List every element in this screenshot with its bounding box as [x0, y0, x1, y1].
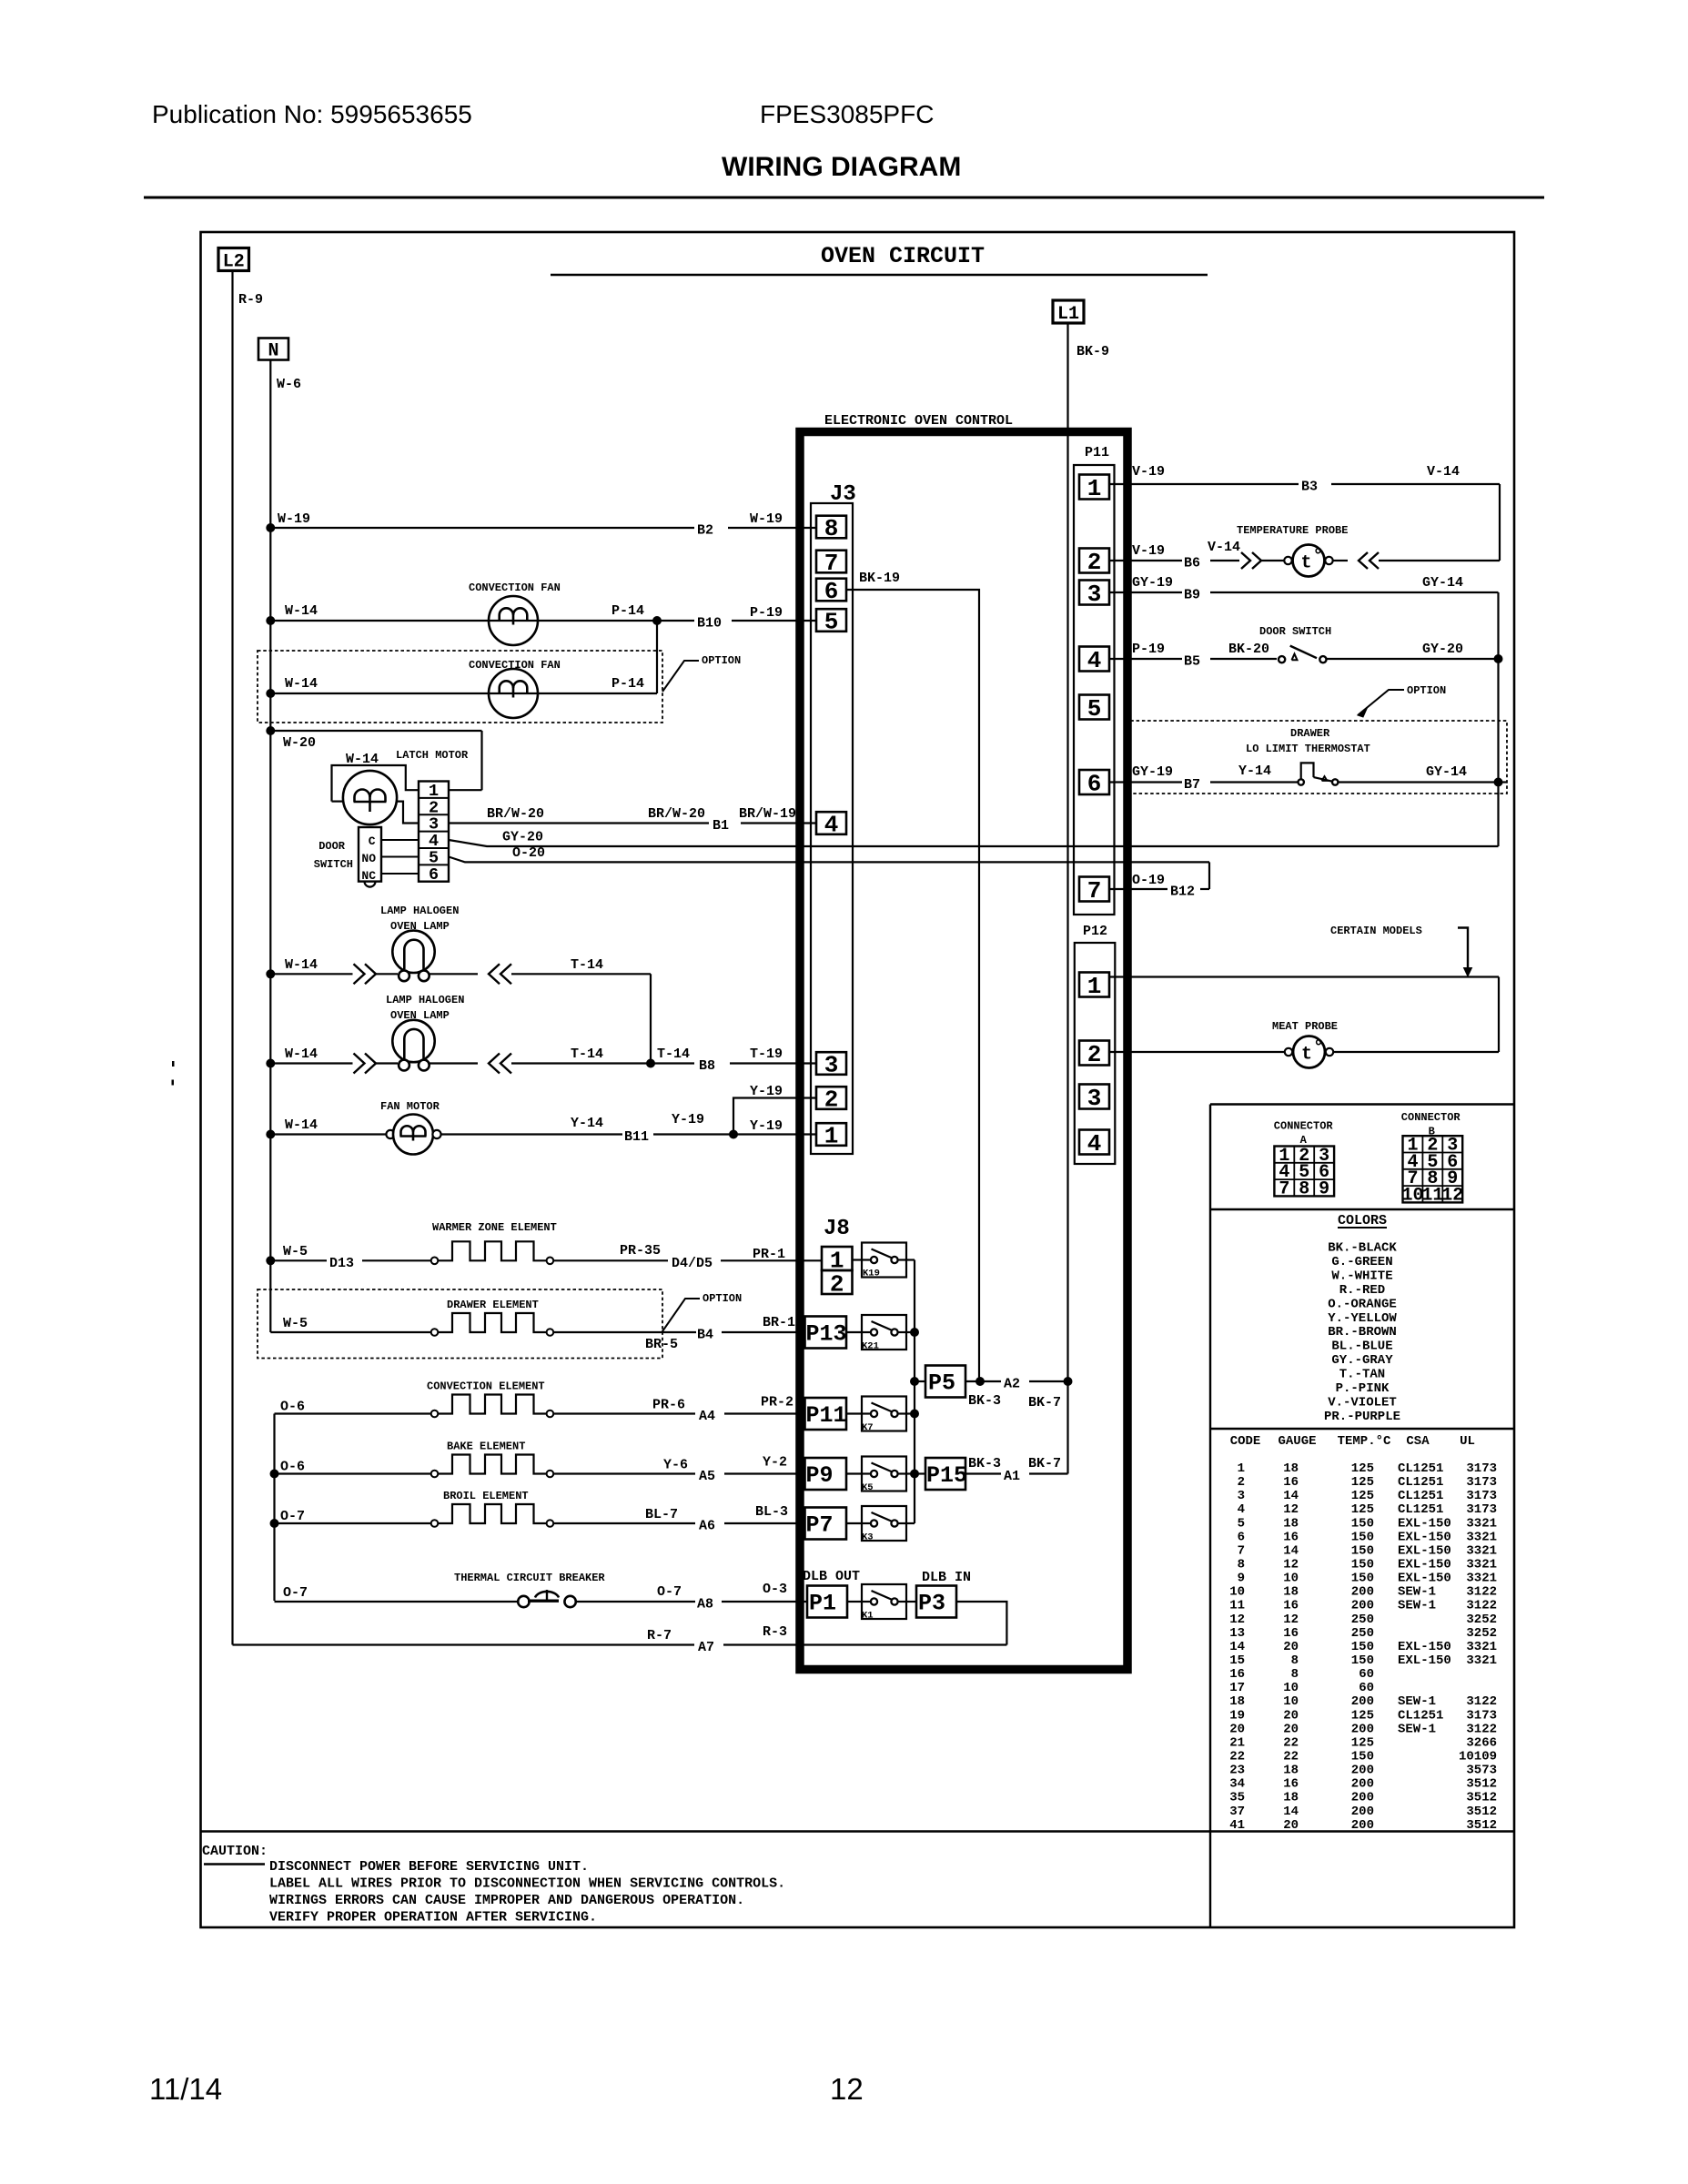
svg-text:5: 5 — [1087, 695, 1102, 723]
svg-text:MEAT PROBE: MEAT PROBE — [1272, 1020, 1338, 1033]
svg-text:WIRINGS ERRORS CAN CAUSE IMPRO: WIRINGS ERRORS CAN CAUSE IMPROPER AND DA… — [269, 1893, 744, 1908]
svg-text:K3: K3 — [862, 1532, 874, 1543]
svg-text:BK-20: BK-20 — [1228, 642, 1269, 657]
svg-text:BL-7: BL-7 — [645, 1507, 678, 1522]
svg-text:BR-1: BR-1 — [763, 1315, 795, 1330]
svg-text:A6: A6 — [699, 1519, 715, 1534]
svg-text:UL: UL — [1460, 1434, 1475, 1449]
svg-text:A8: A8 — [697, 1597, 713, 1613]
svg-text:3122: 3122 — [1466, 1722, 1497, 1736]
svg-text:18: 18 — [1283, 1516, 1299, 1531]
svg-text:7: 7 — [1087, 877, 1102, 905]
svg-text:3321: 3321 — [1466, 1557, 1497, 1572]
svg-text:B6: B6 — [1184, 556, 1200, 571]
svg-text:3321: 3321 — [1466, 1516, 1497, 1531]
svg-text:150: 150 — [1351, 1543, 1374, 1558]
svg-text:14: 14 — [1229, 1640, 1245, 1654]
svg-text:K5: K5 — [862, 1482, 874, 1493]
svg-text:11: 11 — [1229, 1599, 1245, 1613]
svg-text:9: 9 — [1238, 1572, 1245, 1586]
svg-text:W-14: W-14 — [285, 603, 318, 619]
svg-text:T-19: T-19 — [750, 1046, 783, 1062]
svg-text:125: 125 — [1351, 1708, 1374, 1723]
svg-text:P9: P9 — [806, 1462, 834, 1489]
svg-text:7: 7 — [1279, 1178, 1289, 1199]
svg-text:BR-5: BR-5 — [645, 1337, 678, 1352]
svg-text:OVEN LAMP: OVEN LAMP — [390, 1009, 450, 1022]
svg-text:20: 20 — [1283, 1818, 1299, 1833]
svg-text:COLORS: COLORS — [1338, 1213, 1387, 1228]
svg-text:8: 8 — [1291, 1653, 1299, 1668]
svg-text:2: 2 — [824, 1087, 839, 1114]
svg-text:PR-1: PR-1 — [753, 1247, 785, 1262]
svg-text:CL1251: CL1251 — [1398, 1461, 1443, 1476]
svg-text:16: 16 — [1283, 1599, 1299, 1613]
svg-text:19: 19 — [1229, 1708, 1245, 1723]
svg-text:K1: K1 — [862, 1611, 874, 1622]
svg-text:3321: 3321 — [1466, 1543, 1497, 1558]
svg-text:P.-PINK: P.-PINK — [1336, 1381, 1390, 1396]
svg-text:10: 10 — [1283, 1694, 1299, 1709]
svg-text:A4: A4 — [699, 1409, 715, 1424]
svg-text:150: 150 — [1351, 1572, 1374, 1586]
svg-text:125: 125 — [1351, 1735, 1374, 1750]
svg-text:16: 16 — [1283, 1475, 1299, 1490]
svg-text:150: 150 — [1351, 1749, 1374, 1764]
svg-text:CONNECTOR: CONNECTOR — [1274, 1120, 1334, 1133]
svg-text:BROIL ELEMENT: BROIL ELEMENT — [443, 1490, 529, 1502]
svg-text:Y-6: Y-6 — [663, 1458, 688, 1473]
svg-text:DRAWER ELEMENT: DRAWER ELEMENT — [447, 1299, 539, 1311]
svg-text:4: 4 — [1238, 1502, 1245, 1517]
svg-text:FPES3085PFC: FPES3085PFC — [760, 100, 934, 128]
svg-text:2: 2 — [830, 1271, 844, 1299]
svg-text:ELECTRONIC OVEN CONTROL: ELECTRONIC OVEN CONTROL — [824, 413, 1013, 429]
svg-text:B3: B3 — [1301, 480, 1318, 495]
svg-text:N: N — [268, 341, 278, 362]
svg-text:W-19: W-19 — [278, 511, 310, 527]
svg-text:B7: B7 — [1184, 777, 1200, 793]
svg-text:CL1251: CL1251 — [1398, 1502, 1443, 1517]
svg-text:BR/W-19: BR/W-19 — [739, 806, 796, 822]
svg-text:GY-20: GY-20 — [502, 830, 543, 845]
svg-text:18: 18 — [1283, 1791, 1299, 1805]
svg-text:P5: P5 — [928, 1370, 955, 1397]
svg-text:3252: 3252 — [1466, 1626, 1497, 1641]
svg-text:C: C — [369, 834, 376, 848]
svg-text:A1: A1 — [1004, 1469, 1020, 1484]
svg-text:O-6: O-6 — [280, 1460, 305, 1475]
svg-text:SEW-1: SEW-1 — [1398, 1585, 1436, 1600]
svg-text:WIRING DIAGRAM: WIRING DIAGRAM — [722, 152, 961, 182]
svg-text:3173: 3173 — [1466, 1489, 1497, 1503]
svg-text:P-14: P-14 — [612, 676, 644, 692]
svg-text:WARMER ZONE ELEMENT: WARMER ZONE ELEMENT — [432, 1221, 557, 1234]
svg-text:CONVECTION ELEMENT: CONVECTION ELEMENT — [427, 1380, 545, 1393]
svg-text:EXL-150: EXL-150 — [1398, 1557, 1451, 1572]
svg-text:125: 125 — [1351, 1475, 1374, 1490]
svg-text:BK-7: BK-7 — [1028, 1395, 1061, 1410]
svg-text:OVEN LAMP: OVEN LAMP — [390, 920, 450, 933]
svg-text:BK-19: BK-19 — [859, 571, 900, 586]
svg-text:3122: 3122 — [1466, 1694, 1497, 1709]
svg-text:OPTION: OPTION — [1407, 684, 1446, 697]
svg-text:K21: K21 — [862, 1341, 879, 1352]
svg-text:6: 6 — [429, 865, 439, 885]
svg-text:P-19: P-19 — [1132, 642, 1165, 657]
svg-text:OPTION: OPTION — [702, 654, 741, 667]
svg-text:LAMP HALOGEN: LAMP HALOGEN — [386, 994, 464, 1006]
svg-text:12: 12 — [830, 2072, 864, 2106]
svg-text:P1: P1 — [809, 1591, 836, 1617]
svg-text:EXL-150: EXL-150 — [1398, 1543, 1451, 1558]
svg-text:8: 8 — [1291, 1667, 1299, 1682]
svg-text:TEMP.°C: TEMP.°C — [1338, 1434, 1391, 1449]
svg-text:3321: 3321 — [1466, 1640, 1497, 1654]
svg-text:P11: P11 — [1085, 445, 1109, 460]
svg-text:CERTAIN MODELS: CERTAIN MODELS — [1330, 925, 1422, 937]
svg-text:150: 150 — [1351, 1516, 1374, 1531]
svg-text:2: 2 — [1087, 1041, 1102, 1068]
svg-text:GY-19: GY-19 — [1132, 575, 1173, 591]
svg-text:R-7: R-7 — [647, 1628, 672, 1643]
svg-text:VERIFY PROPER OPERATION AFTER: VERIFY PROPER OPERATION AFTER SERVICING. — [269, 1910, 597, 1926]
svg-text:P3: P3 — [918, 1591, 945, 1617]
svg-text:3173: 3173 — [1466, 1461, 1497, 1476]
svg-text:1: 1 — [1087, 973, 1102, 1000]
svg-text:P15: P15 — [926, 1462, 967, 1489]
svg-text:8: 8 — [824, 515, 839, 542]
svg-text:O-7: O-7 — [280, 1509, 305, 1524]
svg-text:10: 10 — [1283, 1572, 1299, 1586]
svg-text:BK-7: BK-7 — [1028, 1456, 1061, 1471]
svg-text:B12: B12 — [1170, 885, 1195, 900]
svg-text:CL1251: CL1251 — [1398, 1475, 1443, 1490]
svg-text:3252: 3252 — [1466, 1613, 1497, 1627]
svg-text:t: t — [1301, 1045, 1312, 1066]
svg-text:5: 5 — [1238, 1516, 1245, 1531]
svg-text:3512: 3512 — [1466, 1818, 1497, 1833]
svg-text:B11: B11 — [624, 1129, 649, 1145]
svg-text:P-19: P-19 — [750, 605, 783, 621]
svg-text:PR-2: PR-2 — [761, 1395, 793, 1410]
svg-text:13: 13 — [1229, 1626, 1245, 1641]
svg-text:14: 14 — [1283, 1489, 1299, 1503]
svg-text:R-3: R-3 — [763, 1624, 787, 1640]
svg-text:THERMAL CIRCUIT BREAKER: THERMAL CIRCUIT BREAKER — [454, 1572, 605, 1584]
svg-text:9: 9 — [1319, 1178, 1329, 1199]
svg-text:125: 125 — [1351, 1502, 1374, 1517]
svg-text:EXL-150: EXL-150 — [1398, 1640, 1451, 1654]
svg-text:8: 8 — [1299, 1178, 1309, 1199]
svg-text:16: 16 — [1283, 1777, 1299, 1792]
svg-text:EXL-150: EXL-150 — [1398, 1516, 1451, 1531]
svg-text:O-3: O-3 — [763, 1582, 787, 1597]
svg-text:4: 4 — [1087, 647, 1102, 674]
svg-text:P7: P7 — [806, 1512, 834, 1539]
svg-text:GY.-GRAY: GY.-GRAY — [1331, 1353, 1393, 1368]
svg-text:BK-3: BK-3 — [968, 1456, 1001, 1471]
svg-text:3512: 3512 — [1466, 1805, 1497, 1819]
svg-text:L1: L1 — [1057, 304, 1079, 325]
svg-text:125: 125 — [1351, 1461, 1374, 1476]
svg-text:SEW-1: SEW-1 — [1398, 1694, 1436, 1709]
svg-text:7: 7 — [1238, 1543, 1245, 1558]
svg-text:BAKE ELEMENT: BAKE ELEMENT — [447, 1441, 525, 1453]
svg-text:P13: P13 — [806, 1321, 847, 1348]
svg-text:CSA: CSA — [1406, 1434, 1430, 1449]
svg-text:12: 12 — [1283, 1502, 1299, 1517]
svg-text:PR-35: PR-35 — [620, 1243, 661, 1259]
svg-text:150: 150 — [1351, 1530, 1374, 1544]
svg-text:16: 16 — [1283, 1530, 1299, 1544]
svg-text:B4: B4 — [697, 1328, 713, 1343]
svg-text:B9: B9 — [1184, 588, 1200, 603]
svg-text:FAN MOTOR: FAN MOTOR — [380, 1100, 440, 1113]
svg-text:DLB IN: DLB IN — [922, 1570, 971, 1585]
svg-text:B1: B1 — [713, 818, 729, 834]
svg-text:200: 200 — [1351, 1805, 1374, 1819]
svg-text:35: 35 — [1229, 1791, 1245, 1805]
svg-text:Y-14: Y-14 — [571, 1116, 603, 1131]
svg-text:250: 250 — [1351, 1613, 1374, 1627]
svg-text:Y-19: Y-19 — [672, 1112, 704, 1127]
svg-text:15: 15 — [1229, 1653, 1245, 1668]
svg-text:LAMP HALOGEN: LAMP HALOGEN — [380, 905, 459, 917]
svg-text:Y.-YELLOW: Y.-YELLOW — [1328, 1311, 1397, 1326]
svg-text:GY-14: GY-14 — [1422, 575, 1463, 591]
svg-text:O-7: O-7 — [283, 1585, 308, 1601]
svg-text:V-14: V-14 — [1208, 540, 1240, 555]
svg-text:6: 6 — [824, 578, 839, 605]
svg-text:LO LIMIT THERMOSTAT: LO LIMIT THERMOSTAT — [1246, 743, 1370, 755]
svg-text:18: 18 — [1283, 1585, 1299, 1600]
svg-text:125: 125 — [1351, 1489, 1374, 1503]
svg-text:150: 150 — [1351, 1653, 1374, 1668]
svg-text:O-6: O-6 — [280, 1400, 305, 1415]
svg-text:P-14: P-14 — [612, 603, 644, 619]
svg-text:O-7: O-7 — [657, 1584, 682, 1600]
svg-text:EXL-150: EXL-150 — [1398, 1653, 1451, 1668]
svg-text:NO: NO — [361, 852, 376, 865]
svg-text:t: t — [1301, 553, 1312, 574]
svg-text:J3: J3 — [830, 482, 856, 507]
svg-text:CL1251: CL1251 — [1398, 1708, 1443, 1723]
svg-text:200: 200 — [1351, 1599, 1374, 1613]
svg-text:B2: B2 — [697, 523, 713, 539]
svg-text:10: 10 — [1283, 1681, 1299, 1695]
svg-text:B5: B5 — [1184, 654, 1200, 670]
svg-text:LATCH MOTOR: LATCH MOTOR — [396, 749, 469, 762]
svg-text:W-14: W-14 — [285, 1046, 318, 1062]
svg-text:8: 8 — [1238, 1557, 1245, 1572]
svg-text:21: 21 — [1229, 1735, 1245, 1750]
svg-text:PR.-PURPLE: PR.-PURPLE — [1324, 1410, 1400, 1424]
svg-text:250: 250 — [1351, 1626, 1374, 1641]
svg-text:34: 34 — [1229, 1777, 1245, 1792]
svg-text:T-14: T-14 — [571, 1046, 603, 1062]
svg-text:12: 12 — [1283, 1557, 1299, 1572]
svg-text:10109: 10109 — [1459, 1749, 1497, 1764]
svg-text:150: 150 — [1351, 1640, 1374, 1654]
svg-text:4: 4 — [1087, 1130, 1102, 1158]
svg-text:T-14: T-14 — [571, 957, 603, 973]
svg-text:3: 3 — [1238, 1489, 1245, 1503]
svg-text:GY-19: GY-19 — [1132, 764, 1173, 780]
svg-text:W-14: W-14 — [285, 957, 318, 973]
svg-text:O-20: O-20 — [512, 845, 545, 861]
svg-text:TEMPERATURE PROBE: TEMPERATURE PROBE — [1237, 524, 1348, 537]
svg-text:Y-19: Y-19 — [750, 1118, 783, 1134]
svg-text:1: 1 — [1238, 1461, 1245, 1476]
svg-text:W.-WHITE: W.-WHITE — [1331, 1269, 1392, 1283]
svg-text:3173: 3173 — [1466, 1502, 1497, 1517]
svg-text:V.-VIOLET: V.-VIOLET — [1328, 1395, 1397, 1410]
svg-text:3321: 3321 — [1466, 1572, 1497, 1586]
svg-text:BK-3: BK-3 — [968, 1393, 1001, 1409]
svg-text:OVEN CIRCUIT: OVEN CIRCUIT — [821, 243, 985, 269]
svg-text:CONVECTION FAN: CONVECTION FAN — [469, 581, 561, 594]
svg-text:3122: 3122 — [1466, 1585, 1497, 1600]
svg-text:A2: A2 — [1004, 1377, 1020, 1392]
svg-text:60: 60 — [1359, 1681, 1374, 1695]
svg-text:DRAWER: DRAWER — [1290, 727, 1330, 740]
svg-text:W-5: W-5 — [283, 1244, 308, 1259]
svg-text:W-14: W-14 — [285, 676, 318, 692]
svg-text:5: 5 — [824, 609, 839, 636]
svg-text:22: 22 — [1283, 1749, 1299, 1764]
svg-text:A7: A7 — [698, 1640, 714, 1655]
svg-text:3512: 3512 — [1466, 1791, 1497, 1805]
svg-text:3173: 3173 — [1466, 1475, 1497, 1490]
svg-text:CONNECTOR: CONNECTOR — [1401, 1111, 1461, 1124]
svg-text:11: 11 — [1421, 1185, 1443, 1206]
svg-text:Publication No: 5995653655: Publication No: 5995653655 — [152, 100, 472, 128]
svg-text:G.-GREEN: G.-GREEN — [1331, 1255, 1392, 1269]
svg-text:12: 12 — [1229, 1613, 1245, 1627]
svg-text:DISCONNECT POWER BEFORE SERVIC: DISCONNECT POWER BEFORE SERVICING UNIT. — [269, 1859, 589, 1875]
svg-text:200: 200 — [1351, 1791, 1374, 1805]
svg-text:T.-TAN: T.-TAN — [1339, 1368, 1385, 1382]
svg-text:18: 18 — [1283, 1764, 1299, 1778]
svg-text:37: 37 — [1229, 1805, 1245, 1819]
svg-text:20: 20 — [1229, 1722, 1245, 1736]
svg-text:DLB OUT: DLB OUT — [803, 1569, 860, 1584]
svg-text:V-19: V-19 — [1132, 543, 1165, 559]
svg-text:20: 20 — [1283, 1722, 1299, 1736]
svg-text:10: 10 — [1401, 1185, 1423, 1206]
svg-text:14: 14 — [1283, 1805, 1299, 1819]
svg-text:P11: P11 — [806, 1402, 847, 1429]
svg-text:12: 12 — [1283, 1613, 1299, 1627]
svg-text:BK-9: BK-9 — [1076, 344, 1109, 359]
svg-text:°: ° — [1313, 1038, 1324, 1059]
svg-text:BR/W-20: BR/W-20 — [648, 806, 705, 822]
svg-text:R.-RED: R.-RED — [1339, 1283, 1385, 1298]
svg-text:BR/W-20: BR/W-20 — [487, 806, 544, 822]
svg-text:W-20: W-20 — [283, 735, 316, 751]
svg-text:SEW-1: SEW-1 — [1398, 1599, 1436, 1613]
svg-text:D4/D5: D4/D5 — [672, 1256, 713, 1271]
svg-text:200: 200 — [1351, 1722, 1374, 1736]
svg-text:T-14: T-14 — [657, 1046, 690, 1062]
svg-text:22: 22 — [1229, 1749, 1245, 1764]
svg-text:R-9: R-9 — [238, 292, 263, 308]
svg-text:CODE: CODE — [1230, 1434, 1261, 1449]
svg-text:3: 3 — [824, 1052, 839, 1079]
svg-text:J8: J8 — [824, 1217, 850, 1241]
svg-text:A5: A5 — [699, 1469, 715, 1484]
svg-text:BL.-BLUE: BL.-BLUE — [1331, 1340, 1392, 1354]
svg-text:W-19: W-19 — [750, 511, 783, 527]
svg-text:1: 1 — [1087, 475, 1102, 502]
svg-text:BK.-BLACK: BK.-BLACK — [1328, 1241, 1397, 1256]
svg-text:EXL-150: EXL-150 — [1398, 1572, 1451, 1586]
svg-text:D13: D13 — [329, 1256, 354, 1271]
svg-text:200: 200 — [1351, 1764, 1374, 1778]
svg-text:NC: NC — [361, 869, 376, 883]
svg-text:6: 6 — [1238, 1530, 1245, 1544]
svg-text:200: 200 — [1351, 1818, 1374, 1833]
svg-text:B8: B8 — [699, 1058, 715, 1074]
svg-text:11/14: 11/14 — [149, 2072, 222, 2106]
svg-text:14: 14 — [1283, 1543, 1299, 1558]
svg-text:23: 23 — [1229, 1764, 1245, 1778]
svg-text:2: 2 — [1087, 549, 1102, 576]
svg-text:BL-3: BL-3 — [755, 1504, 788, 1520]
svg-text:DOOR: DOOR — [318, 840, 346, 853]
svg-text:3573: 3573 — [1466, 1764, 1497, 1778]
svg-text:16: 16 — [1283, 1626, 1299, 1641]
svg-text:12: 12 — [1441, 1185, 1463, 1206]
svg-text:7: 7 — [824, 550, 839, 577]
svg-text:3: 3 — [1087, 1085, 1102, 1112]
svg-text:W-6: W-6 — [277, 377, 301, 392]
svg-text:17: 17 — [1229, 1681, 1245, 1695]
svg-text:3321: 3321 — [1466, 1530, 1497, 1544]
svg-text:K7: K7 — [862, 1422, 874, 1433]
svg-text:3321: 3321 — [1466, 1653, 1497, 1668]
svg-text:EXL-150: EXL-150 — [1398, 1530, 1451, 1544]
svg-text:4: 4 — [824, 812, 839, 839]
svg-text:PR-6: PR-6 — [652, 1398, 685, 1413]
svg-text:GY-14: GY-14 — [1426, 764, 1467, 780]
svg-text:Y-19: Y-19 — [750, 1084, 783, 1099]
svg-text:10: 10 — [1229, 1585, 1245, 1600]
svg-text:Y-14: Y-14 — [1238, 763, 1271, 779]
svg-text:22: 22 — [1283, 1735, 1299, 1750]
svg-text:CAUTION:: CAUTION: — [202, 1844, 268, 1859]
svg-text:O-19: O-19 — [1132, 873, 1165, 888]
svg-text:OPTION: OPTION — [702, 1292, 742, 1305]
svg-text:Y-2: Y-2 — [763, 1455, 787, 1471]
svg-text:V-14: V-14 — [1427, 464, 1460, 480]
svg-text:DOOR SWITCH: DOOR SWITCH — [1259, 625, 1331, 638]
svg-text:60: 60 — [1359, 1667, 1374, 1682]
svg-text:°: ° — [1313, 547, 1324, 568]
svg-text:CONVECTION FAN: CONVECTION FAN — [469, 659, 561, 672]
svg-text:150: 150 — [1351, 1557, 1374, 1572]
svg-text:V-19: V-19 — [1132, 464, 1165, 480]
svg-text:20: 20 — [1283, 1708, 1299, 1723]
svg-text:L2: L2 — [223, 252, 245, 273]
svg-text:BR.-BROWN: BR.-BROWN — [1328, 1325, 1397, 1340]
svg-text:GAUGE: GAUGE — [1278, 1434, 1316, 1449]
svg-text:1: 1 — [824, 1123, 839, 1150]
svg-text:41: 41 — [1229, 1818, 1245, 1833]
svg-text:GY-20: GY-20 — [1422, 642, 1463, 657]
svg-text:16: 16 — [1229, 1667, 1245, 1682]
